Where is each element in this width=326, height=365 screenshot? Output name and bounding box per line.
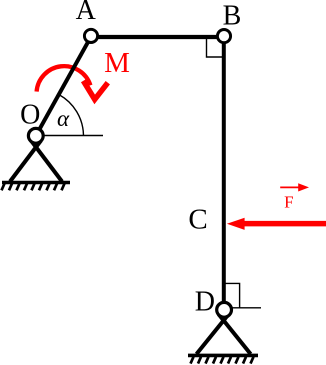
support at D: left leg: [197, 314, 229, 354]
svg-text:F: F: [284, 193, 293, 212]
pin B: [217, 29, 230, 42]
link OA: [36, 37, 91, 136]
support at D: right leg: [219, 314, 251, 354]
svg-text:C: C: [188, 203, 207, 235]
svg-text:O: O: [20, 99, 40, 130]
support at O: base: [2, 181, 70, 185]
reference line at D: [230, 307, 261, 309]
svg-text:α: α: [57, 106, 70, 131]
angle alpha arc: [59, 95, 84, 136]
F vector small arrowhead: [298, 183, 309, 191]
F vector small arrow shaft: [280, 186, 299, 188]
right-angle mark at B: [207, 39, 223, 57]
svg-text:D: D: [195, 287, 215, 318]
support at O: right leg: [31, 141, 62, 182]
pin A: [84, 29, 97, 42]
right-angle mark at D: [226, 283, 240, 307]
svg-text:A: A: [76, 0, 97, 26]
link AB: [91, 35, 224, 39]
support at D: base: [188, 354, 258, 358]
moment M arrowhead: [83, 81, 108, 100]
force F arrow shaft: [242, 221, 326, 227]
support at O: left leg: [10, 141, 41, 182]
force F arrowhead: [227, 218, 245, 230]
moment M arc: [37, 66, 91, 91]
link BD: [222, 37, 226, 310]
pin D: [217, 302, 232, 317]
svg-text:M: M: [104, 47, 130, 79]
angle reference line at O: [36, 135, 103, 137]
svg-text:B: B: [223, 0, 242, 31]
pin O: [28, 128, 43, 143]
support at D: hatching: [191, 357, 254, 364]
support at O: hatching: [2, 184, 65, 191]
